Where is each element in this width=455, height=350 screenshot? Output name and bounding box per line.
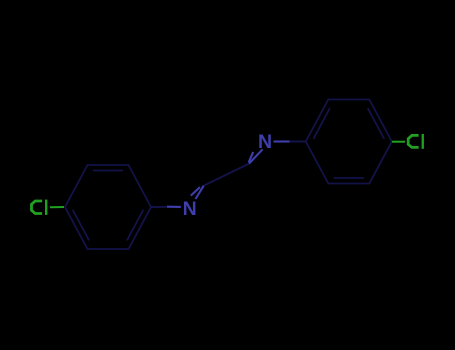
double bond N1=C1 main line [196, 186, 204, 199]
right benzene ring outline [306, 100, 392, 184]
single bond C1-C2 (dark) [204, 164, 249, 186]
left ring inner double bond (lower-left) [73, 210, 89, 239]
svg-text:N: N [258, 131, 272, 153]
bond left ring to N1: dark half [151, 206, 167, 208]
bond N2 to right ring: dark half [290, 141, 306, 143]
right ring inner double bond (upper-left) [314, 109, 330, 138]
atom label Cl1 [32, 200, 48, 215]
atom label Cl2 [408, 134, 424, 149]
double bond C2=N2 inner line [249, 152, 254, 162]
double bond C2=N2 main line [249, 149, 263, 163]
right ring inner double bond (bottom) [334, 177, 363, 179]
left ring inner double bond (lower-right) [127, 210, 143, 239]
left ring inner double bond (top) [94, 170, 123, 172]
left benzene ring outline [65, 165, 151, 249]
bond Cl1 to left ring (green) [50, 206, 64, 208]
bond N2 to right ring: blue half [274, 140, 290, 142]
bond left ring to N1: blue half [167, 206, 181, 208]
right ring inner double bond (upper-right) [368, 109, 384, 138]
double bond N1=C1 inner line [191, 187, 200, 196]
bond right ring to Cl2 (green) [392, 141, 405, 143]
svg-text:N: N [183, 198, 197, 220]
